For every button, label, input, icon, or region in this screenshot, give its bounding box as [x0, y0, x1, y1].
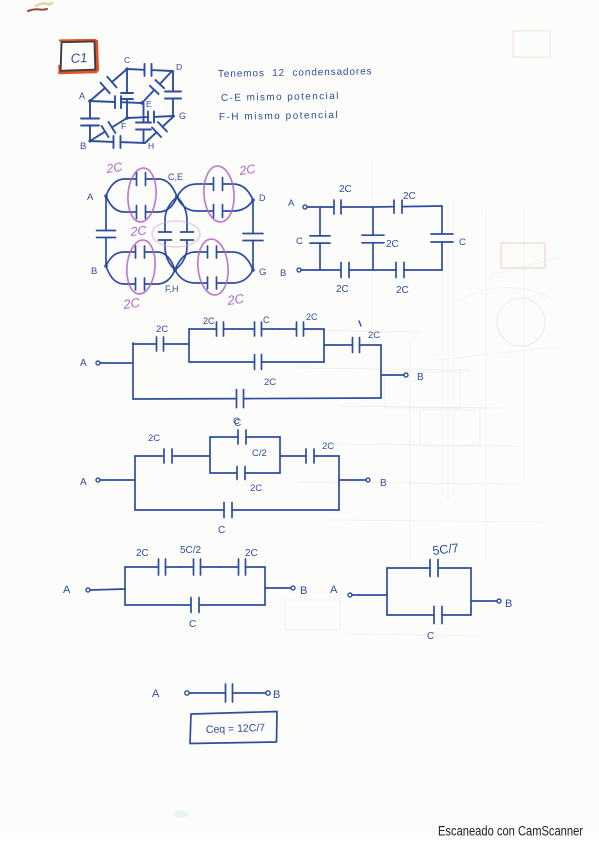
capacitor on cube edge E-H [136, 103, 151, 143]
svg-text:F,H: F,H [165, 284, 179, 294]
svg-text:C: C [218, 525, 225, 536]
svg-text:B: B [505, 598, 512, 610]
capacitor C (diagram 7 bottom) [387, 607, 471, 624]
capacitor 2C (inner top 3) [279, 322, 324, 336]
wire left rail (diagram 5) [134, 456, 136, 510]
svg-text:D: D [176, 62, 182, 72]
svg-text:2C: 2C [396, 285, 409, 296]
svg-text:2C: 2C [245, 548, 258, 559]
capacitor 2C (FH to G, upper branch) [175, 243, 253, 270]
highlight ellipse purple (B-FH caps) [125, 239, 158, 295]
wire B lead (diagram 7) [471, 600, 497, 602]
capacitor 2C (CE to FH, right branch) [175, 197, 197, 270]
svg-text:2C: 2C [403, 191, 416, 202]
svg-text:D: D [259, 193, 266, 203]
svg-text:2C: 2C [156, 324, 168, 335]
svg-text:G: G [179, 111, 186, 121]
capacitor C (D to G right edge) [243, 200, 263, 270]
svg-text:C-E mismo potencial: C-E mismo potencial [221, 91, 340, 104]
wire inner box right rail (diagram 5) [279, 437, 281, 473]
svg-text:2C: 2C [336, 284, 349, 295]
capacitor 2C (B to FH, lower branch) [106, 266, 175, 293]
capacitor 2C (ladder bottom left) [301, 263, 373, 278]
capacitor on cube edge C-F [121, 69, 133, 118]
capacitor 2C (B to FH, upper branch) [106, 243, 175, 270]
capacitor 2C (CE to D, lower branch) [177, 197, 253, 221]
highlight ellipse purple (CE-D caps) [202, 165, 236, 223]
svg-text:C: C [296, 236, 303, 247]
capacitor 5C/7 (diagram 7 top) [387, 560, 471, 577]
svg-text:C: C [189, 619, 196, 630]
svg-text:F: F [121, 121, 126, 131]
capacitor C (diagram 5 bottom) [135, 503, 339, 518]
capacitor 2C (CE to FH, left branch) [156, 197, 178, 270]
wire inner box left rail [188, 329, 190, 362]
capacitor 2C (ladder top left) [307, 200, 373, 214]
capacitor 2C (CE to D, upper branch) [177, 175, 253, 201]
wire B lead (diagram 5) [339, 479, 366, 481]
wire B lead (diagram 4) [381, 374, 404, 376]
faint highlight ellipse (CE-FH caps) [152, 221, 200, 247]
capacitor on cube edge A-B [81, 101, 99, 141]
capacitor 2C (inner top 1) [189, 322, 239, 336]
svg-text:2C: 2C [136, 548, 149, 559]
paper shading [0, 838, 599, 848]
svg-text:E: E [146, 99, 152, 109]
terminal node A (diagram 4) [96, 361, 100, 365]
svg-text:2C: 2C [306, 312, 318, 322]
capacitor 2C (diagram 6 series 1) [125, 559, 180, 575]
junction dots on cube [88, 67, 144, 142]
capacitor C (A to B left edge) [97, 196, 116, 266]
svg-text:A: A [87, 192, 94, 203]
svg-text:2C: 2C [129, 223, 148, 239]
wire left rail (diagram 4) [132, 343, 134, 399]
svg-text:B: B [280, 268, 286, 279]
svg-text:2C: 2C [339, 184, 352, 195]
capacitor 2C (diagram 6 series 3) [220, 559, 265, 575]
svg-text:A: A [80, 477, 87, 488]
capacitor 2C (inner bottom) [189, 355, 324, 370]
wire inner box right rail [323, 329, 325, 362]
wire left rail (diagram 6) [124, 567, 126, 605]
svg-text:A: A [63, 584, 71, 596]
capacitor 2C (diagram 4 top left) [133, 337, 189, 351]
terminal node B (diagram 4) [404, 373, 408, 377]
wire right rail (diagram 4) [380, 345, 382, 398]
wire left rail (diagram 7) [386, 568, 388, 615]
terminal node A (ladder) [303, 205, 307, 209]
capacitor 2C (ladder middle shunt) [362, 207, 384, 270]
svg-text:H: H [148, 141, 154, 151]
svg-text:C: C [124, 55, 130, 65]
capacitor 5C/2 (diagram 6 series 2) [180, 559, 220, 575]
terminal node A (final) [185, 691, 189, 695]
svg-text:A: A [79, 91, 85, 101]
wire A lead (diagram 7) [352, 594, 387, 596]
terminal node B (final) [266, 691, 270, 695]
yellow smudge top edge [36, 3, 52, 6]
capacitor C (diagram 5 inner top) [210, 430, 280, 444]
svg-text:F-H mismo potencial: F-H mismo potencial [219, 110, 339, 123]
capacitor on cube edge F-G [127, 112, 174, 123]
svg-text:A: A [330, 584, 338, 596]
wire A lead (diagram 6) [90, 589, 125, 590]
capacitor 2C (diagram 5 right) [280, 449, 339, 463]
tick mark [359, 321, 361, 326]
capacitor on cube edge B-H [90, 136, 145, 148]
svg-text:2C: 2C [121, 295, 141, 312]
terminal node A (diagram 7) [348, 593, 352, 597]
wire right rail (diagram 6) [264, 567, 266, 605]
capacitor Ceq (final) [189, 684, 266, 702]
svg-text:C: C [427, 631, 434, 642]
capacitor on cube edge B-F [90, 118, 127, 141]
svg-text:2C: 2C [250, 483, 262, 494]
capacitor on cube edge D-E [142, 71, 172, 103]
red pen scribble top edge [28, 9, 47, 11]
wire right rail (diagram 7) [470, 568, 472, 615]
capacitor C (diagram 6 bottom) [125, 598, 265, 613]
capacitor 2C (ladder bottom right) [373, 263, 442, 278]
capacitor 2C (ladder top right) [373, 200, 442, 213]
svg-text:2C: 2C [264, 377, 276, 388]
capacitor 2C (FH to G, lower branch) [175, 270, 253, 292]
capacitor on cube edge C-D [127, 64, 172, 76]
svg-text:B: B [300, 585, 307, 597]
svg-text:B: B [417, 372, 424, 383]
wire A lead (diagram 4) [100, 362, 133, 364]
junction dots (theta network) [104, 194, 255, 272]
svg-text:5C/2: 5C/2 [180, 545, 202, 556]
terminal node B (ladder) [297, 268, 301, 272]
svg-text:Ceq = 12C/7: Ceq = 12C/7 [206, 722, 266, 736]
svg-text:G: G [259, 267, 266, 278]
highlight ellipse purple (FH-G caps) [196, 238, 231, 296]
svg-text:A: A [80, 358, 87, 369]
capacitor C (diagram 4 bottom) [133, 390, 381, 408]
capacitor 2C (diagram 5 inner bottom) [210, 467, 280, 480]
capacitor on cube edge A-C [90, 69, 127, 101]
terminal node B (diagram 6) [291, 586, 295, 590]
wire A lead (diagram 5) [100, 479, 135, 481]
capacitor C (ladder left shunt) [310, 207, 330, 270]
capacitor C (inner top 2) [239, 322, 279, 336]
svg-text:B: B [91, 266, 97, 277]
capacitor 2C (A to CE, upper branch) [106, 170, 177, 198]
capacitor on cube edge A-E [90, 96, 142, 108]
svg-text:2C: 2C [322, 441, 334, 452]
svg-text:B: B [380, 478, 387, 489]
wire right rail (diagram 5) [338, 456, 340, 510]
terminal node A (diagram 6) [86, 588, 90, 592]
svg-text:2C: 2C [225, 291, 245, 308]
svg-text:C: C [233, 416, 240, 427]
svg-text:B: B [80, 141, 86, 152]
svg-text:A: A [288, 198, 295, 209]
highlight ellipse purple (A-CE caps) [126, 167, 158, 223]
terminal node B (diagram 7) [497, 599, 501, 603]
capacitor 2C (diagram 5 left) [135, 449, 210, 463]
capacitor 2C (diagram 4 right) [324, 338, 381, 353]
svg-text:2C: 2C [148, 433, 160, 444]
problem box C1 (red outer frame) [59, 40, 97, 73]
svg-text:C,E: C,E [168, 172, 183, 182]
svg-text:Escaneado con CamScanner: Escaneado con CamScanner [438, 824, 583, 840]
problem box C1 (dark inner frame) [61, 41, 96, 70]
svg-text:2C: 2C [203, 316, 215, 326]
capacitor on cube edge D-G [165, 71, 181, 116]
capacitor on cube edge G-H [145, 116, 174, 143]
terminal node A (diagram 5) [96, 478, 100, 482]
capacitor C (ladder right shunt) [431, 206, 453, 270]
svg-text:2C: 2C [386, 239, 399, 250]
svg-text:2C: 2C [368, 330, 380, 341]
svg-text:2C: 2C [237, 162, 257, 178]
terminal node B (diagram 5) [366, 478, 370, 482]
wire B lead (diagram 6) [265, 587, 291, 589]
svg-text:C: C [459, 237, 466, 248]
svg-text:C/2: C/2 [252, 448, 267, 459]
svg-text:2C: 2C [104, 160, 124, 176]
svg-text:A: A [152, 688, 160, 700]
wire inner box left rail (diagram 5) [209, 437, 211, 473]
svg-text:C1: C1 [70, 50, 88, 66]
svg-text:C: C [263, 315, 270, 325]
result box [190, 712, 277, 744]
capacitor 2C (A to CE, lower branch) [106, 196, 177, 222]
svg-text:B: B [273, 689, 280, 701]
faint bleed-through grid and sketches [174, 31, 558, 818]
